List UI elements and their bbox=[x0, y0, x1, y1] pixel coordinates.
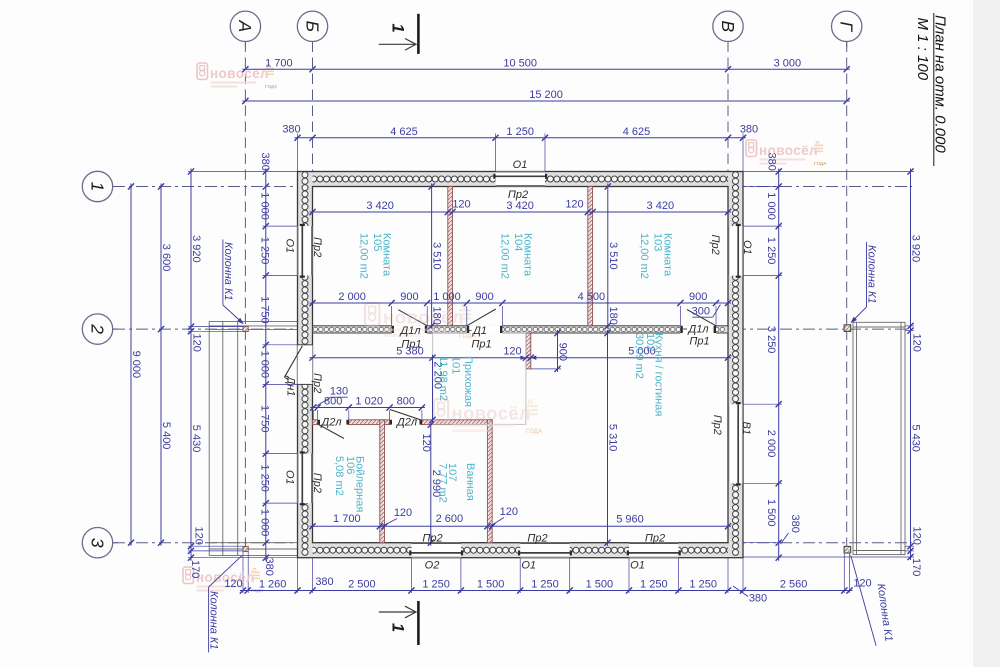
svg-text:О1: О1 bbox=[284, 239, 296, 254]
exterior wall bottom bbox=[298, 543, 744, 558]
svg-text:15: 15 bbox=[527, 400, 533, 406]
svg-text:1 700: 1 700 bbox=[333, 513, 361, 525]
svg-text:5,08 m2: 5,08 m2 bbox=[333, 456, 345, 496]
svg-text:Прихожая: Прихожая bbox=[462, 356, 474, 407]
svg-text:12,00 m2: 12,00 m2 bbox=[499, 233, 511, 279]
svg-text:3 250: 3 250 bbox=[765, 326, 777, 354]
vertical chain x265.8 left wall bbox=[265, 169, 267, 561]
svg-text:130: 130 bbox=[330, 386, 348, 398]
column K1 top-left bbox=[243, 326, 248, 331]
svg-text:Г: Г bbox=[837, 22, 857, 33]
partition boiler|bath bbox=[380, 420, 385, 543]
svg-text:120: 120 bbox=[420, 434, 432, 452]
svg-text:15: 15 bbox=[252, 567, 257, 572]
window O1 left wall upper bbox=[298, 226, 313, 275]
svg-text:120: 120 bbox=[911, 334, 923, 352]
svg-text:380: 380 bbox=[315, 576, 333, 588]
svg-text:120: 120 bbox=[394, 507, 412, 519]
svg-text:120: 120 bbox=[500, 506, 518, 518]
svg-text:1 250: 1 250 bbox=[506, 126, 534, 138]
svg-text:380: 380 bbox=[789, 515, 801, 533]
svg-text:3 510: 3 510 bbox=[431, 242, 443, 270]
window O1 top wall bbox=[496, 172, 546, 187]
svg-text:3 920: 3 920 bbox=[910, 235, 922, 263]
svg-text:1 250: 1 250 bbox=[765, 237, 777, 265]
svg-text:900: 900 bbox=[400, 291, 418, 303]
vertical chain x778.7 right wall bbox=[778, 169, 780, 561]
window O1 bottom wall center bbox=[520, 543, 570, 558]
svg-text:1 260: 1 260 bbox=[259, 579, 287, 591]
svg-text:Колонна К1: Колонна К1 bbox=[866, 245, 878, 304]
svg-text:Пр2: Пр2 bbox=[709, 235, 721, 255]
svg-text:2 000: 2 000 bbox=[765, 430, 777, 458]
axis circle 3 bbox=[82, 528, 112, 558]
svg-text:Пр2: Пр2 bbox=[645, 533, 665, 545]
svg-text:О1: О1 bbox=[284, 470, 296, 485]
window B1 right wall bbox=[728, 404, 743, 483]
svg-text:9 000: 9 000 bbox=[130, 351, 142, 379]
svg-text:1 020: 1 020 bbox=[355, 396, 383, 408]
svg-text:Пр2: Пр2 bbox=[527, 533, 547, 545]
svg-text:3 920: 3 920 bbox=[190, 235, 202, 263]
dim 2200 prihozhaya bbox=[432, 355, 434, 423]
dim 900 stub bbox=[557, 330, 559, 372]
axis line G (vertical) bbox=[846, 42, 848, 553]
svg-text:ГОДА: ГОДА bbox=[265, 84, 278, 89]
svg-text:380: 380 bbox=[740, 124, 758, 136]
svg-text:4 500: 4 500 bbox=[578, 291, 606, 303]
svg-text:В1: В1 bbox=[740, 422, 752, 435]
svg-text:5 310: 5 310 bbox=[607, 424, 619, 452]
section mark top bbox=[417, 14, 420, 54]
room 101 area boundary bbox=[433, 333, 526, 424]
door Dn1 opening left wall bbox=[298, 345, 313, 385]
vertical chain x910.5 right outer bbox=[910, 169, 912, 561]
svg-text:ГОДА: ГОДА bbox=[526, 429, 543, 435]
svg-text:2 600: 2 600 bbox=[436, 513, 464, 525]
door D1l leaf bbox=[398, 310, 427, 326]
svg-text:380: 380 bbox=[263, 558, 275, 576]
watermark center bbox=[434, 399, 543, 435]
vertical chain x131 9000 bbox=[130, 184, 132, 546]
svg-text:120: 120 bbox=[911, 527, 923, 545]
svg-text:180: 180 bbox=[431, 307, 443, 325]
svg-text:800: 800 bbox=[397, 396, 415, 408]
svg-text:Пр2: Пр2 bbox=[508, 189, 528, 201]
dim 3510/180 room105 bbox=[431, 184, 433, 329]
watermark top-left bbox=[197, 63, 278, 90]
svg-text:1 700: 1 700 bbox=[265, 57, 293, 69]
exterior wall top bbox=[298, 172, 744, 187]
svg-text:1: 1 bbox=[389, 24, 407, 33]
svg-text:1 000: 1 000 bbox=[258, 192, 270, 220]
svg-text:2 000: 2 000 bbox=[338, 291, 366, 303]
svg-text:2 500: 2 500 bbox=[348, 579, 376, 591]
axis line A (vertical) bbox=[244, 42, 246, 553]
svg-text:2 560: 2 560 bbox=[780, 579, 808, 591]
svg-text:120: 120 bbox=[853, 578, 871, 590]
svg-text:Колонна К1: Колонна К1 bbox=[208, 591, 220, 650]
dim chain top overall 15200 bbox=[242, 100, 849, 102]
svg-text:2: 2 bbox=[87, 323, 107, 334]
exterior wall right bbox=[728, 172, 743, 558]
partition bath|kitchen bbox=[487, 420, 492, 543]
axis circle 1 bbox=[82, 171, 112, 201]
svg-text:О1: О1 bbox=[513, 159, 528, 171]
svg-text:Пр2: Пр2 bbox=[311, 473, 323, 493]
svg-text:4 625: 4 625 bbox=[623, 126, 651, 138]
svg-text:1: 1 bbox=[389, 623, 407, 632]
axis circle B bbox=[297, 11, 327, 41]
boiler room top wall stub bbox=[313, 420, 318, 425]
svg-text:Д1: Д1 bbox=[471, 325, 487, 337]
svg-text:7,77 m2: 7,77 m2 bbox=[436, 463, 448, 503]
svg-text:новосёл: новосёл bbox=[210, 66, 269, 81]
svg-text:1 000: 1 000 bbox=[258, 509, 270, 537]
svg-text:1 250: 1 250 bbox=[258, 237, 270, 265]
exterior wall left bbox=[298, 172, 313, 558]
svg-text:12,00 m2: 12,00 m2 bbox=[357, 233, 369, 279]
svg-text:3: 3 bbox=[87, 538, 107, 548]
svg-text:170: 170 bbox=[910, 558, 922, 576]
door D1l opening (room 105) bbox=[392, 325, 428, 334]
svg-text:Б: Б bbox=[302, 21, 322, 32]
svg-text:Пр2: Пр2 bbox=[422, 533, 442, 545]
svg-text:5 400: 5 400 bbox=[160, 422, 172, 450]
dim 5310 kitchen bbox=[607, 330, 609, 546]
svg-text:О1: О1 bbox=[521, 560, 536, 572]
partition room105|104 bbox=[448, 187, 453, 326]
dim chain 3420 row y212 bbox=[310, 211, 732, 213]
interior wall axis2 (180mm) bbox=[313, 326, 729, 333]
section mark bottom bbox=[417, 601, 420, 645]
svg-text:О2: О2 bbox=[425, 560, 440, 572]
svg-text:Д2л: Д2л bbox=[395, 417, 417, 429]
svg-text:М 1 : 100: М 1 : 100 bbox=[914, 18, 931, 81]
svg-text:Дн1: Дн1 bbox=[285, 375, 297, 397]
right terrace slab outline bbox=[853, 322, 905, 554]
vertical chain x191 3920/120/5430/120/170 bbox=[190, 169, 192, 561]
dim chain top walls 380/4625/1250/4625/380 bbox=[295, 137, 747, 139]
svg-text:1 750: 1 750 bbox=[258, 296, 270, 324]
vertical chain x161 3600/5400 bbox=[160, 184, 162, 546]
svg-text:900: 900 bbox=[475, 291, 493, 303]
svg-text:3 420: 3 420 bbox=[506, 200, 534, 212]
svg-text:120: 120 bbox=[565, 199, 583, 211]
axis circle V bbox=[713, 11, 743, 41]
column K1 bottom-right bbox=[844, 546, 851, 553]
svg-text:новосёл: новосёл bbox=[383, 307, 464, 328]
kitchen stub wall bbox=[526, 333, 531, 369]
dim chain doors row y407.5 bbox=[310, 407, 425, 409]
svg-text:Д1л: Д1л bbox=[398, 325, 420, 337]
label Kolonna K1 top-left bbox=[222, 239, 224, 305]
svg-text:120: 120 bbox=[452, 199, 470, 211]
svg-text:Ванная: Ванная bbox=[464, 463, 476, 501]
svg-text:ГОДА: ГОДА bbox=[814, 161, 827, 166]
svg-text:120: 120 bbox=[193, 527, 205, 545]
axis line 2 (horizontal) bbox=[113, 328, 912, 330]
svg-text:Пр2: Пр2 bbox=[711, 415, 723, 435]
svg-text:30,09 m2: 30,09 m2 bbox=[633, 333, 645, 379]
watermark top-right bbox=[746, 140, 827, 167]
svg-text:15: 15 bbox=[815, 140, 820, 145]
dim 5380 / 5000 row bbox=[310, 357, 529, 359]
svg-text:5 960: 5 960 bbox=[616, 514, 644, 526]
dim 2990 bath bbox=[430, 422, 432, 546]
svg-text:Колонна К1: Колонна К1 bbox=[222, 242, 234, 301]
dim chain top axes 1700/10500/3000 bbox=[242, 68, 849, 70]
svg-text:380: 380 bbox=[259, 153, 271, 171]
svg-text:1 250: 1 250 bbox=[422, 579, 450, 591]
svg-text:Пр2: Пр2 bbox=[311, 237, 323, 257]
svg-text:1 250: 1 250 bbox=[531, 579, 559, 591]
svg-text:3 420: 3 420 bbox=[366, 200, 394, 212]
svg-text:3 420: 3 420 bbox=[647, 200, 675, 212]
door D1 leaf bbox=[467, 309, 496, 326]
svg-text:380: 380 bbox=[766, 153, 778, 171]
svg-text:300: 300 bbox=[692, 306, 710, 318]
svg-text:120: 120 bbox=[224, 578, 242, 590]
svg-text:3 510: 3 510 bbox=[607, 242, 619, 270]
door D2l bath leaf bbox=[390, 410, 422, 421]
svg-text:15 200: 15 200 bbox=[529, 89, 563, 101]
wall between boiler door and bath door bbox=[349, 420, 390, 425]
svg-text:Пр1: Пр1 bbox=[401, 339, 421, 351]
door D2l opening (bath) bbox=[390, 420, 392, 425]
svg-text:101: 101 bbox=[449, 356, 461, 374]
svg-text:1 000: 1 000 bbox=[258, 351, 270, 379]
svg-text:4 625: 4 625 bbox=[390, 126, 418, 138]
svg-text:103: 103 bbox=[651, 233, 663, 251]
svg-text:Д2л: Д2л bbox=[319, 417, 341, 429]
svg-text:120: 120 bbox=[503, 346, 521, 358]
svg-text:1 250: 1 250 bbox=[640, 579, 668, 591]
svg-text:Пр2: Пр2 bbox=[311, 373, 323, 393]
svg-text:11,98 m2: 11,98 m2 bbox=[437, 356, 449, 401]
svg-text:900: 900 bbox=[689, 291, 707, 303]
label Kolonna K1 bottom-left bbox=[209, 555, 243, 587]
axis circle A bbox=[230, 11, 260, 41]
svg-text:120: 120 bbox=[191, 334, 203, 352]
svg-text:1 000: 1 000 bbox=[765, 192, 777, 220]
svg-text:3 600: 3 600 bbox=[160, 244, 172, 272]
window O1 bottom wall right bbox=[629, 543, 679, 558]
svg-text:А: А bbox=[235, 19, 255, 32]
svg-text:О1: О1 bbox=[741, 240, 753, 255]
watermark bottom-left bbox=[183, 567, 264, 594]
svg-text:170: 170 bbox=[189, 560, 201, 578]
dim chain bottom outer y590.5 bbox=[240, 590, 853, 592]
door D1l right leaf bbox=[687, 310, 716, 326]
axis line 1 (horizontal) bbox=[113, 186, 912, 188]
svg-text:105: 105 bbox=[371, 233, 383, 251]
svg-text:О1: О1 bbox=[630, 560, 645, 572]
dim 3510/180 room103 bbox=[607, 184, 609, 329]
svg-text:Пр1: Пр1 bbox=[471, 339, 491, 351]
svg-text:900: 900 bbox=[557, 343, 569, 361]
column K1 top-right bbox=[844, 325, 851, 332]
svg-text:10 500: 10 500 bbox=[503, 57, 537, 69]
axis circle G bbox=[832, 11, 862, 41]
svg-text:1 500: 1 500 bbox=[765, 499, 777, 527]
label Kolonna K1 bottom-right bbox=[851, 555, 876, 645]
svg-text:1: 1 bbox=[87, 182, 107, 192]
axis circle 2 bbox=[82, 314, 112, 344]
bath top wall bbox=[422, 420, 492, 425]
door D1 opening (room 104) bbox=[467, 325, 503, 334]
svg-text:1 500: 1 500 bbox=[586, 579, 614, 591]
axis line V (vertical) bbox=[727, 42, 729, 172]
door Dn1 leaf bbox=[284, 346, 302, 378]
svg-text:5 430: 5 430 bbox=[910, 424, 922, 452]
svg-text:1 000: 1 000 bbox=[433, 291, 461, 303]
door D1l opening (room 103) bbox=[680, 325, 716, 334]
dim chain rooms row y303 bbox=[310, 302, 732, 304]
label Kolonna K1 top-right bbox=[866, 242, 868, 307]
svg-text:1 750: 1 750 bbox=[258, 405, 270, 433]
svg-text:Пр1: Пр1 bbox=[689, 336, 709, 348]
svg-text:104: 104 bbox=[512, 233, 524, 251]
door D2l opening (boiler) bbox=[318, 420, 320, 425]
column K1 bottom-left bbox=[243, 546, 248, 551]
watermark center-left bbox=[365, 303, 476, 340]
partition room104|103 bbox=[588, 187, 593, 326]
svg-text:12,00 m2: 12,00 m2 bbox=[638, 233, 650, 279]
axis line B (vertical) bbox=[312, 42, 314, 172]
left porch slab outline bbox=[208, 321, 210, 555]
window O1 right wall upper bbox=[728, 226, 743, 276]
dim chain bottom inner y526.3 bbox=[310, 525, 732, 527]
window O1 left wall lower bbox=[298, 454, 313, 504]
svg-text:1 250: 1 250 bbox=[258, 464, 270, 492]
svg-text:5 430: 5 430 bbox=[190, 425, 202, 453]
door D2l boiler leaf bbox=[319, 425, 345, 439]
svg-text:3 000: 3 000 bbox=[774, 57, 802, 69]
axis line 3 (horizontal) bbox=[113, 542, 912, 544]
svg-text:1 500: 1 500 bbox=[477, 579, 505, 591]
svg-text:1 250: 1 250 bbox=[689, 579, 717, 591]
svg-text:Д1л: Д1л bbox=[686, 324, 708, 336]
svg-text:380: 380 bbox=[282, 124, 300, 136]
svg-text:380: 380 bbox=[749, 593, 767, 605]
svg-text:180: 180 bbox=[607, 307, 619, 325]
window O2 bottom wall bbox=[411, 543, 461, 558]
svg-text:В: В bbox=[718, 20, 738, 32]
